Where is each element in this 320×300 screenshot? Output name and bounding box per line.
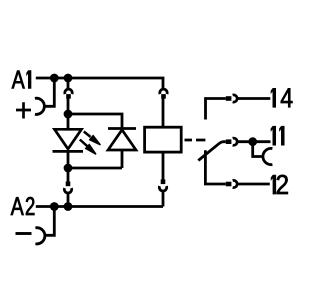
LED indicator diode triangle — [55, 129, 82, 149]
plug-in socket LED branch to A2 — [64, 188, 71, 193]
wire stub A1 dot to plug socket — [67, 78, 70, 90]
plug pin coil bottom — [161, 179, 166, 184]
wire top rail to freewheeling diode — [68, 114, 122, 129]
wire plug pin to LED top node — [67, 98, 70, 114]
plug pin contact 14 — [226, 96, 232, 101]
terminal label 11 — [271, 126, 284, 145]
NC contact stub wire to 12 row — [205, 150, 225, 184]
wire plug pin to coil — [162, 98, 165, 127]
plug pin LED branch bottom — [66, 182, 71, 187]
wire socket to terminal 14 — [238, 97, 271, 100]
wire A2 bus — [36, 205, 163, 208]
terminal label 12 — [271, 175, 288, 194]
A1 cage clamp socket — [35, 98, 44, 114]
11 cage clamp socket — [263, 148, 272, 164]
freewheeling diode triangle — [108, 130, 136, 150]
plug-in socket contact 14 — [233, 95, 238, 102]
relay contact blade — [198, 142, 226, 161]
LED emission arrow 2 — [80, 140, 96, 155]
plug pin LED branch top — [66, 94, 71, 99]
node LED top junction — [64, 110, 73, 119]
LED emission arrow 1 — [84, 132, 101, 145]
plug pin contact 12 — [226, 182, 232, 187]
node junction dot 11 — [248, 137, 257, 146]
node junction dot A1 clamp branch — [50, 74, 59, 83]
node junction dot A2 LED branch — [64, 202, 73, 211]
wire bottom rail — [68, 167, 122, 170]
wire socket to node 11 — [238, 140, 271, 143]
plug-in socket A1 to LED branch — [65, 89, 72, 94]
wire socket to terminal 12 — [238, 183, 270, 186]
LED cathode bar — [53, 150, 84, 153]
plug pin coil top — [161, 94, 166, 99]
A2 cage clamp socket — [35, 228, 44, 244]
plug-in socket contact 12 — [233, 180, 238, 187]
wire A2 dot down and left to clamp — [45, 207, 55, 236]
plug-in socket coil to A2 — [159, 186, 166, 191]
plug-in socket A1 to coil branch — [160, 89, 167, 94]
node junction dot A2 clamp branch — [50, 202, 59, 211]
node junction dot A1 LED branch — [64, 74, 73, 83]
minus polarity sign — [16, 232, 32, 235]
wire A1 dot down and left to clamp — [44, 78, 54, 106]
relay coil K1 — [145, 127, 182, 152]
freewheeling diode cathode bar — [108, 127, 136, 130]
wire LED bottom node to plug pin — [67, 168, 70, 182]
terminal label A2 — [11, 197, 35, 215]
mechanical linkage dashed line — [185, 139, 206, 142]
terminal label A1 — [12, 71, 31, 89]
plug-in socket contact 11 — [233, 138, 238, 145]
wire 11 dot down and right to clamp — [253, 142, 263, 157]
wire socket to A2 bus — [67, 193, 70, 207]
terminal label 14 — [271, 88, 292, 107]
wire socket to A2 bus corner — [162, 191, 165, 207]
wire A1 bus with turn to coil branch — [36, 78, 163, 90]
node LED bottom junction — [64, 164, 73, 173]
plug pin contact 11 — [226, 139, 232, 144]
wire coil bottom to plug pin — [162, 152, 165, 180]
plus polarity sign — [16, 102, 31, 118]
wire freewheeling diode to bottom rail — [121, 150, 124, 168]
wire contact 14 row with NO stub — [206, 99, 226, 120]
wire through LED — [67, 114, 70, 168]
